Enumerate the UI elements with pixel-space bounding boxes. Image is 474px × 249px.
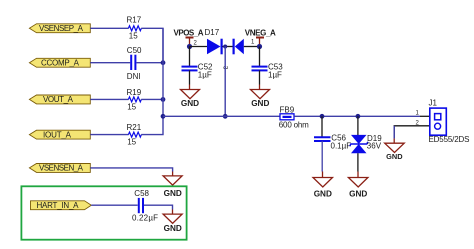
wire C50 to bus: [136, 62, 163, 64]
svg-text:GND: GND: [251, 99, 269, 108]
svg-text:0.22µF: 0.22µF: [132, 214, 158, 223]
junction VPOS node: [187, 44, 192, 49]
svg-text:FB9: FB9: [280, 106, 295, 115]
wire C56 pin down: [321, 116, 323, 136]
wire C58 to GND: [144, 205, 173, 209]
svg-text:J1: J1: [429, 99, 438, 108]
svg-text:600 ohm: 600 ohm: [279, 121, 309, 130]
svg-text:R21: R21: [127, 123, 142, 132]
wire C53 to GND: [259, 70, 261, 84]
junction main-C56: [320, 114, 325, 119]
capacitor C52: [182, 63, 214, 80]
wire D19 to GND: [357, 153, 359, 171]
wire VSENSEN to GND: [90, 168, 172, 172]
capacitor C53 pin down: [259, 47, 261, 67]
svg-text:1µF: 1µF: [198, 71, 212, 80]
diode D17 left (anode left, cathode bar right): [205, 28, 222, 54]
diode D17a pin wire: [190, 46, 208, 48]
ground GND (C58): [163, 214, 182, 233]
wire R17 to bus: [141, 28, 163, 62]
svg-text:15: 15: [129, 31, 138, 40]
junction bus-main line: [161, 114, 166, 119]
ground GND (J1 pin2): [385, 143, 405, 161]
main wire left of FB9: [163, 115, 280, 117]
resistor R19: [127, 88, 142, 112]
svg-text:VSENSEN_A: VSENSEN_A: [39, 164, 84, 173]
wire R21 to bus corner: [141, 116, 163, 134]
svg-text:VSENSEP_A: VSENSEP_A: [39, 24, 84, 33]
svg-text:VNEG_A: VNEG_A: [245, 29, 276, 38]
power port VPOS_A: [174, 29, 204, 47]
power port VNEG_A: [245, 29, 276, 47]
svg-text:15: 15: [127, 103, 136, 112]
svg-text:36V: 36V: [367, 142, 382, 151]
capacitor C58: [132, 189, 158, 223]
junction VNEG node: [257, 44, 262, 49]
junction center tap: [223, 45, 227, 49]
TVS diode D19: [350, 116, 382, 153]
wire IOUT to R21: [90, 134, 128, 136]
junction bus-R19: [161, 97, 166, 102]
junction bus-C50: [161, 60, 166, 65]
svg-text:0.1µF: 0.1µF: [331, 142, 352, 151]
svg-text:15: 15: [127, 138, 136, 147]
connector J1 pin2 wire: [394, 126, 430, 138]
wire HART to C58: [91, 204, 137, 206]
diode D17b pin wire: [244, 46, 260, 48]
resistor R21: [127, 123, 142, 146]
ferrite bead FB9: [279, 106, 309, 130]
ground GND (C53): [251, 90, 270, 109]
ground GND (VSENSEN): [163, 176, 182, 198]
svg-text:GND: GND: [386, 152, 403, 161]
main wire right of FB9: [294, 115, 420, 117]
svg-text:GND: GND: [164, 189, 182, 198]
port HART_IN_A: [31, 201, 92, 210]
svg-text:HART_IN_A: HART_IN_A: [37, 201, 80, 210]
ground GND (D19): [348, 178, 368, 199]
resistor R17: [127, 16, 142, 41]
junction main-D17 tap: [223, 114, 228, 119]
wire VOUT to R19: [90, 98, 128, 100]
svg-text:1: 1: [416, 111, 420, 117]
junction main-D19: [356, 114, 361, 119]
svg-text:GND: GND: [349, 189, 367, 198]
svg-text:1µF: 1µF: [268, 71, 282, 80]
svg-text:DNI: DNI: [127, 72, 141, 81]
wire between D17 halves: [222, 46, 233, 48]
svg-text:GND: GND: [314, 189, 332, 198]
diode D17 right (cathode bar left, anode right): [234, 39, 244, 55]
vertical bus wire: [162, 28, 164, 116]
connector J1: [429, 99, 470, 145]
wire pin2 to GND: [393, 126, 395, 139]
wire VSENSEP to R17: [90, 27, 128, 29]
port VSENSEN_A: [29, 164, 90, 173]
svg-text:C58: C58: [134, 189, 149, 198]
green highlight box: [21, 186, 186, 239]
capacitor C53: [252, 63, 284, 80]
svg-text:1: 1: [251, 40, 255, 46]
wire R19 to bus: [141, 98, 163, 100]
capacitor C52 pin down: [189, 47, 191, 67]
svg-text:2: 2: [194, 41, 198, 47]
svg-text:VOUT_A: VOUT_A: [43, 95, 74, 104]
wire C52 to GND: [189, 70, 191, 84]
connector J1 pin1 wire: [420, 115, 430, 117]
capacitor C50: [127, 46, 142, 81]
capacitor C56: [314, 134, 351, 151]
port CCOMP_A: [29, 58, 90, 67]
port IOUT_A: [29, 130, 90, 139]
svg-text:C50: C50: [127, 46, 142, 55]
svg-text:ED555/2DS: ED555/2DS: [429, 135, 470, 144]
svg-text:CCOMP_A: CCOMP_A: [41, 59, 80, 68]
svg-text:VPOS_A: VPOS_A: [174, 29, 204, 38]
svg-text:IOUT_A: IOUT_A: [43, 130, 72, 139]
svg-text:R19: R19: [127, 88, 142, 97]
port VOUT_A: [29, 95, 90, 104]
port VSENSEP_A: [29, 24, 90, 33]
svg-text:R17: R17: [127, 16, 142, 25]
wire C56 to GND: [321, 141, 323, 172]
wire CCOMP to C50: [90, 62, 130, 64]
ground GND (C56): [313, 178, 333, 199]
ground GND (C52): [181, 90, 200, 109]
svg-text:GND: GND: [164, 224, 182, 233]
svg-text:GND: GND: [181, 99, 199, 108]
svg-text:D17: D17: [205, 28, 220, 37]
wire center tap down to main line: [224, 47, 226, 117]
